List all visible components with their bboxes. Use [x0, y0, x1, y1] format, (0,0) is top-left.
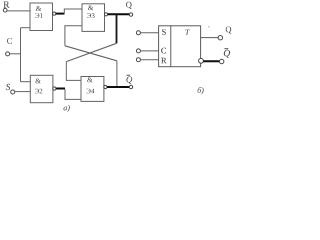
label T — [185, 30, 189, 35]
wire R input — [140, 59, 158, 61]
gate U1 label & — [36, 6, 41, 11]
gate U4 designator Э4 — [87, 89, 95, 94]
wire U3 output thick to Q — [108, 13, 130, 15]
wire down to U4 upper input — [66, 62, 81, 81]
flip-flop T block outline — [159, 26, 201, 67]
wire U4 output thick to Qbar — [107, 86, 129, 88]
wire Q output of block — [201, 37, 219, 39]
node Q label — [126, 2, 132, 9]
wire jog down to U4 lower input — [65, 89, 81, 99]
wire C to gate E2 upper input — [21, 81, 31, 83]
gate U1 NAND E1 box — [30, 3, 53, 31]
output Q terminal circle — [218, 36, 222, 40]
node R terminal circle — [3, 8, 7, 12]
node S label — [6, 84, 10, 90]
wire U3 lower input from cross — [65, 26, 82, 46]
gate U1 output bubble — [53, 12, 56, 15]
wire C horizontal — [10, 53, 21, 55]
output Qbar terminal circle — [220, 59, 224, 63]
node Qbar label of block — [224, 50, 230, 58]
gate U4 NAND E4 box — [81, 77, 104, 102]
gate U3 NAND E3 box — [82, 4, 105, 32]
gate U3 designator Э3 — [87, 13, 94, 18]
node Qbar label — [126, 76, 132, 84]
output Qbar bubble — [199, 58, 204, 63]
stray tick mark — [208, 26, 211, 28]
T block divider — [170, 26, 172, 67]
label a) — [64, 105, 70, 112]
gate U2 designator Э2 — [35, 89, 42, 94]
wire C to gate E1 lower input — [21, 27, 31, 29]
gate U4 label & — [87, 77, 92, 82]
wire feedback branch down from Q — [116, 14, 118, 43]
node S terminal circle — [11, 90, 15, 94]
pin label C — [161, 48, 166, 54]
pin label S — [162, 29, 166, 35]
gate U2 output bubble — [53, 87, 56, 90]
node Qbar terminal circle — [129, 85, 132, 88]
gate U4 output bubble — [104, 85, 107, 88]
wire down to U4 output junction — [116, 61, 118, 87]
label b) — [198, 87, 204, 94]
wire cross diagonal from Q branch to U4 — [66, 43, 116, 61]
gate U3 output bubble — [104, 13, 107, 16]
wire U2 output thick — [56, 88, 65, 90]
wire cross diagonal from Qbar branch to U3 — [65, 46, 117, 61]
input C terminal circle — [136, 49, 140, 53]
node Q label of block — [226, 27, 232, 34]
wire C input — [140, 50, 158, 52]
wire U1 output thick — [56, 13, 65, 15]
gate U2 NAND E2 box — [30, 75, 53, 102]
node C label — [7, 38, 12, 44]
gate U2 label & — [36, 78, 41, 83]
input R terminal circle — [136, 58, 140, 62]
node Q terminal circle — [129, 13, 132, 16]
wire C vertical bus — [20, 28, 22, 82]
pin label R — [161, 58, 167, 64]
gate U1 designator Э1 — [35, 13, 42, 18]
wire S to gate E2 — [15, 91, 31, 93]
wire R to gate E1 — [7, 10, 30, 12]
wire jog up to U3 input — [64, 9, 82, 14]
input S terminal circle — [136, 31, 140, 35]
wire Qbar output thick — [203, 60, 219, 62]
node C terminal circle — [6, 52, 10, 56]
gate U3 label & — [88, 5, 93, 10]
node R label — [4, 2, 10, 8]
wire S input — [140, 32, 158, 34]
